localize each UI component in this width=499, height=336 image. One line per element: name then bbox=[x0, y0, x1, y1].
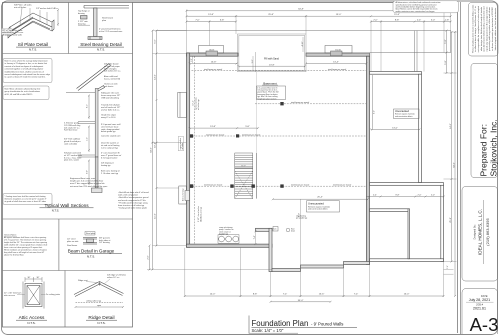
svg-text:14'-0": 14'-0" bbox=[210, 294, 216, 296]
svg-text:7'-0": 7'-0" bbox=[195, 19, 200, 21]
svg-text:cemented together or of self-a: cemented together or of self-adhering po… bbox=[5, 68, 44, 71]
unexcavated strip step wall east bbox=[344, 262, 370, 265]
garage interior north wall bbox=[370, 209, 409, 212]
svg-text:Prepared For:: Prepared For: bbox=[479, 124, 489, 176]
sump pit note bbox=[219, 226, 233, 236]
svg-text:attic access: attic access bbox=[4, 294, 15, 297]
wall section stud wall double line bbox=[95, 89, 98, 158]
svg-text:in effect at time of design. I: in effect at time of design. Ideal Homes… bbox=[474, 6, 477, 51]
drawing frame left column box bbox=[3, 3, 133, 328]
title block designed-by box bbox=[462, 187, 498, 282]
svg-text:6 mil vapor barrier: 6 mil vapor barrier bbox=[101, 156, 118, 159]
svg-text:10'-0": 10'-0" bbox=[241, 166, 246, 168]
fill bay small vdims bbox=[302, 37, 304, 52]
svg-text:8'-1": 8'-1" bbox=[86, 104, 88, 108]
svg-text:and construction debris: and construction debris bbox=[308, 208, 328, 211]
svg-text:furn: furn bbox=[274, 228, 277, 231]
dim row C bbox=[187, 21, 237, 23]
svg-text:in January is 25 degrees or le: in January is 25 degrees or less, an ice… bbox=[5, 62, 48, 65]
porch post lines bbox=[414, 31, 416, 72]
unexcavated strip step wall middle bbox=[301, 265, 344, 268]
east basement wall bbox=[366, 56, 369, 264]
svg-text:• Damp-proof walls below grade: • Damp-proof walls below grade bbox=[118, 207, 148, 210]
fill with sand bay outline bbox=[238, 34, 307, 72]
svg-text:13'-8": 13'-8" bbox=[211, 62, 217, 64]
stair direction dashed cross bbox=[235, 171, 253, 199]
title block disclaimer box bbox=[469, 3, 499, 57]
svg-text:ceiling rafters typ: ceiling rafters typ bbox=[86, 300, 102, 303]
svg-text:proceeding with any portion of: proceeding with any portion of the work … bbox=[488, 6, 491, 51]
west basement wall bbox=[187, 53, 190, 247]
svg-text:Engineered floor truss, max: Engineered floor truss, max bbox=[70, 177, 95, 180]
svg-text:1'-2": 1'-2" bbox=[86, 137, 88, 141]
svg-text:N.T.S.: N.T.S. bbox=[87, 254, 95, 258]
svg-text:at grade of shell also max cov: at grade of shell also max cover at leas… bbox=[5, 200, 47, 203]
svg-text:1'-4": 1'-4" bbox=[447, 265, 449, 269]
svg-text:13'-8": 13'-8" bbox=[210, 126, 216, 128]
svg-text:5'-0": 5'-0" bbox=[155, 39, 157, 44]
svg-text:13'-8": 13'-8" bbox=[269, 64, 275, 66]
svg-text:and mech compacted in 8" lifts: and mech compacted in 8" lifts bbox=[118, 199, 146, 202]
stair wall extension line bbox=[255, 72, 257, 153]
wall section foundation wall bbox=[95, 157, 98, 188]
svg-text:9'-0": 9'-0" bbox=[374, 110, 376, 114]
steel beam top flange lines bbox=[84, 5, 129, 7]
svg-text:4'-10": 4'-10" bbox=[302, 41, 304, 46]
svg-text:64'-0": 64'-0" bbox=[454, 162, 456, 168]
svg-text:13'-0": 13'-0" bbox=[336, 14, 342, 16]
garage north-east top wall bbox=[370, 72, 422, 75]
svg-text:sill sealer at found walls: sill sealer at found walls bbox=[2, 33, 22, 36]
svg-text:16x16: 16x16 bbox=[335, 50, 341, 52]
svg-text:steel beam per manuf: steel beam per manuf bbox=[291, 101, 310, 104]
svg-text:Typical Wall Sections: Typical Wall Sections bbox=[44, 203, 89, 208]
stair treads lower run bbox=[235, 171, 253, 195]
svg-text:3'-0": 3'-0" bbox=[252, 59, 254, 63]
svg-text:13'-6": 13'-6" bbox=[319, 294, 325, 296]
bay east wall bbox=[269, 228, 272, 271]
svg-text:w/ ladder typ: w/ ladder typ bbox=[197, 99, 200, 110]
stair landing line bbox=[235, 168, 253, 170]
column pads mid beam bbox=[190, 134, 240, 137]
svg-text:at the 2 1/2 recessed area: at the 2 1/2 recessed area bbox=[99, 30, 123, 33]
svg-text:fascia, vented 3rd: fascia, vented 3rd bbox=[104, 77, 120, 80]
wall section footing bbox=[92, 188, 103, 193]
wall section note box C bbox=[3, 194, 52, 205]
small 2-0 dim bottom left bbox=[149, 246, 151, 270]
right side extensions bbox=[451, 31, 457, 33]
svg-text:6'-8": 6'-8" bbox=[220, 19, 225, 21]
title block date/sheet box bbox=[462, 289, 498, 335]
porch slab edge line bbox=[157, 31, 452, 72]
pier pad bump-out right bbox=[325, 46, 352, 56]
svg-text:plate ea side: plate ea side bbox=[67, 240, 79, 243]
column line vertical bbox=[193, 56, 195, 244]
garage east wall upper bbox=[419, 74, 422, 182]
svg-text:normal underlayment and extend: normal underlayment and extend from the … bbox=[5, 73, 50, 76]
svg-text:• Backfill w/ non-expansive gr: • Backfill w/ non-expansive gravel bbox=[118, 196, 149, 199]
svg-text:steel beam per manuf: steel beam per manuf bbox=[242, 133, 261, 136]
svg-text:• Provide positive drainage aw: • Provide positive drainage away bbox=[118, 201, 149, 204]
svg-text:Steel Bearing Detail: Steel Bearing Detail bbox=[80, 42, 121, 47]
svg-text:N.T.S.: N.T.S. bbox=[52, 209, 60, 213]
svg-text:25'-4": 25'-4" bbox=[317, 196, 323, 198]
divider under wall sections bbox=[3, 218, 133, 220]
column pads bbox=[190, 102, 284, 188]
sill plate leader lines bbox=[20, 8, 47, 25]
basement note box bbox=[257, 86, 286, 100]
svg-text:anchor bolts 6'-0 o.c.: anchor bolts 6'-0 o.c. bbox=[101, 108, 120, 111]
sill plate left note bbox=[2, 29, 13, 36]
svg-text:walls until compaction: walls until compaction bbox=[118, 194, 138, 197]
svg-text:30": 30" bbox=[37, 277, 40, 279]
svg-text:14'-0": 14'-0" bbox=[450, 123, 452, 129]
attic access top dimension bbox=[25, 277, 42, 282]
svg-text:4'x1'5 chimney: 4'x1'5 chimney bbox=[183, 189, 185, 201]
svg-text:5'-0": 5'-0" bbox=[431, 19, 436, 21]
floor drain symbol bbox=[286, 228, 290, 232]
svg-text:from structure at all sides ty: from structure at all sides typ bbox=[118, 204, 145, 207]
svg-text:below grade typ: below grade typ bbox=[101, 130, 116, 133]
svg-text:- 9' Poured Walls: - 9' Poured Walls bbox=[311, 321, 343, 326]
svg-text:Steel plate: Steel plate bbox=[86, 232, 95, 235]
svg-text:2x ceiling joists: 2x ceiling joists bbox=[46, 293, 60, 296]
top right disclaimer note box bbox=[393, 1, 459, 13]
svg-text:2'-4": 2'-4" bbox=[373, 194, 377, 196]
svg-text:N.T.S.: N.T.S. bbox=[97, 48, 105, 52]
svg-text:not more than 70% total allowe: not more than 70% total allowed for span bbox=[70, 185, 107, 188]
svg-text:14'-6": 14'-6" bbox=[155, 74, 157, 80]
svg-text:Steel beam: Steel beam bbox=[67, 244, 77, 247]
svg-text:modified bitumen sheet, shall: modified bitumen sheet, shall be used in… bbox=[5, 70, 45, 73]
divider wall unexcavated/garage bbox=[370, 183, 444, 186]
svg-text:steel beam per manuf: steel beam per manuf bbox=[206, 133, 225, 136]
garage dimension row bbox=[366, 196, 445, 198]
beam labels mid-left bbox=[206, 133, 261, 136]
wall section right callout texts bbox=[101, 63, 122, 175]
title block prepared-for box bbox=[471, 64, 498, 178]
svg-text:code schedule: code schedule bbox=[64, 143, 78, 145]
svg-text:max 4" dia. nogged holes in ty: max 4" dia. nogged holes in typical do bbox=[70, 182, 105, 185]
svg-text:bearing: bearing bbox=[78, 22, 86, 25]
wall section note box A bbox=[3, 59, 52, 83]
svg-text:2'-0": 2'-0" bbox=[148, 255, 150, 260]
divider between general notes and beam detail cells bbox=[58, 219, 60, 271]
svg-text:2 #4 rebar cont typ: 2 #4 rebar cont typ bbox=[101, 172, 119, 175]
furnace box bbox=[273, 227, 278, 232]
svg-text:1/4" bearing: 1/4" bearing bbox=[99, 242, 110, 244]
svg-text:5'-8": 5'-8" bbox=[445, 60, 447, 65]
dim row A overall bbox=[187, 10, 451, 12]
bay upper wall at kitchen bbox=[256, 228, 273, 231]
attic access side rails bbox=[22, 282, 24, 309]
svg-text:16x16: 16x16 bbox=[209, 50, 215, 52]
svg-text:13'-8": 13'-8" bbox=[208, 14, 214, 16]
ridge rafter right slope bbox=[99, 282, 124, 296]
garage beam top plate callout box bbox=[85, 232, 95, 236]
svg-text:25'-8": 25'-8" bbox=[450, 217, 452, 223]
svg-text:Unexcavated: Unexcavated bbox=[395, 110, 410, 113]
svg-text:These drawings were made to me: These drawings were made to meet buildin… bbox=[471, 5, 474, 53]
svg-text:w/ ladder: w/ ladder bbox=[181, 142, 184, 149]
fill bay interior line bbox=[255, 52, 257, 72]
svg-text:steel beam per manuf: steel beam per manuf bbox=[333, 183, 352, 186]
svg-text:Stojkovich, Inc.: Stojkovich, Inc. bbox=[488, 119, 498, 176]
unexcavated note upper right bbox=[394, 109, 420, 119]
svg-text:per grade typ: per grade typ bbox=[296, 217, 307, 220]
svg-text:report any discrepancies to th: report any discrepancies to the designer… bbox=[485, 6, 488, 52]
svg-text:8'-8": 8'-8" bbox=[253, 294, 258, 296]
svg-text:(219) 863-6395: (219) 863-6395 bbox=[485, 218, 490, 246]
svg-text:5'-8": 5'-8" bbox=[445, 39, 447, 44]
divider between attic access and ridge detail bbox=[64, 271, 66, 328]
svg-text:General Notes:: General Notes: bbox=[4, 234, 17, 237]
svg-text:5'-8": 5'-8" bbox=[245, 126, 250, 128]
svg-text:5'-0": 5'-0" bbox=[431, 194, 435, 196]
stair side wall bbox=[255, 153, 257, 199]
bearing plate block bbox=[81, 16, 88, 20]
stair treads upper run bbox=[235, 155, 253, 166]
svg-text:2x8 rafters 16" o.c.: 2x8 rafters 16" o.c. bbox=[104, 70, 122, 73]
svg-text:15'-4": 15'-4" bbox=[394, 14, 400, 16]
svg-text:Foundation Plan: Foundation Plan bbox=[252, 319, 309, 328]
sill plate right dimension bbox=[57, 10, 59, 26]
ridge ceiling joist dashed line bbox=[76, 302, 124, 304]
svg-text:64'-0": 64'-0" bbox=[151, 147, 153, 153]
beam line mid bbox=[255, 103, 366, 105]
svg-text:Concrete sealed cont: Concrete sealed cont bbox=[101, 135, 121, 138]
svg-text:Beam Detail in Garage: Beam Detail in Garage bbox=[68, 249, 115, 254]
svg-text:7'-4": 7'-4" bbox=[354, 294, 359, 296]
dim row B bbox=[187, 15, 451, 17]
svg-text:24x24x12 pad typ: 24x24x12 pad typ bbox=[200, 207, 203, 222]
svg-text:2'-0": 2'-0" bbox=[191, 58, 193, 62]
svg-text:11'-6": 11'-6" bbox=[155, 213, 157, 219]
svg-text:8'-8": 8'-8" bbox=[396, 194, 400, 196]
wall section note box B bbox=[3, 86, 49, 100]
svg-text:steel beam per manuf: steel beam per manuf bbox=[291, 183, 310, 186]
svg-text:of BL, HL and NE in table R302: of BL, HL and NE in table R302.1. bbox=[5, 93, 34, 96]
svg-text:N.T.S.: N.T.S. bbox=[29, 48, 37, 52]
chimney bump bbox=[179, 186, 190, 204]
svg-text:sub fascia: sub fascia bbox=[104, 86, 114, 88]
wall section right bullet list bbox=[118, 191, 149, 210]
wall section ceiling line bbox=[66, 92, 97, 94]
svg-text:2'-0": 2'-0" bbox=[373, 19, 378, 21]
svg-text:and construction debris: and construction debris bbox=[395, 115, 413, 118]
svg-text:7'-4": 7'-4" bbox=[283, 294, 288, 296]
svg-text:rafters 16" o.c.: rafters 16" o.c. bbox=[107, 276, 120, 279]
svg-text:19'-4": 19'-4" bbox=[155, 142, 157, 148]
svg-text:7'-4": 7'-4" bbox=[254, 235, 256, 239]
svg-text:consists of at least two layer: consists of at least two layers of under… bbox=[5, 65, 44, 68]
svg-text:17'-4": 17'-4" bbox=[192, 100, 194, 106]
svg-text:Note: Minor alterations allowe: Note: Minor alterations allowed during f… bbox=[5, 88, 41, 91]
svg-text:Scale: 1/4" = 1'0": Scale: 1/4" = 1'0" bbox=[252, 328, 284, 333]
mid-left extension bbox=[152, 142, 187, 144]
svg-text:on these documents per standar: on these documents per standards of ICC/… bbox=[491, 7, 494, 51]
svg-text:OSB wall sheathing: OSB wall sheathing bbox=[101, 96, 119, 99]
frame right border of plan area bbox=[457, 3, 459, 334]
garage east wall lower bbox=[441, 185, 444, 261]
beam labels bbox=[204, 68, 352, 187]
bay dim bbox=[255, 231, 257, 244]
svg-text:plate min, sealer: plate min, sealer bbox=[64, 159, 79, 162]
pier pad bump-out left bbox=[199, 46, 224, 56]
ridge dimension line bbox=[75, 306, 125, 308]
svg-text:latest adopted edition and loc: latest adopted edition and local amendme… bbox=[494, 8, 497, 51]
divider under top detail row bbox=[3, 53, 133, 55]
svg-text:30": 30" bbox=[28, 277, 31, 279]
svg-text:1'-8": 1'-8" bbox=[445, 19, 450, 21]
front wall left segment bbox=[187, 53, 239, 56]
svg-text:drain: drain bbox=[291, 231, 295, 233]
svg-text:not responsible for compliance: not responsible for compliance w/ codes … bbox=[477, 5, 480, 52]
svg-text:13'-0": 13'-0" bbox=[392, 127, 398, 129]
garage beam flange plates bbox=[83, 237, 97, 239]
svg-text:A-3: A-3 bbox=[470, 314, 499, 335]
title block left border bbox=[460, 2, 462, 334]
svg-text:after design date. Builder sha: after design date. Builder shall verify … bbox=[480, 7, 483, 51]
wall section floor lines bbox=[78, 121, 95, 123]
svg-text:25'-8": 25'-8" bbox=[268, 14, 274, 16]
svg-text:and/or omissions once construc: and/or omissions once construction has b… bbox=[396, 10, 435, 13]
egress note boxed rotated bbox=[178, 137, 183, 151]
svg-text:IDEAL HOMES, L.L.C.: IDEAL HOMES, L.L.C. bbox=[478, 209, 483, 255]
attic access X brace bbox=[27, 286, 40, 305]
svg-text:2'-4": 2'-4" bbox=[417, 19, 422, 21]
svg-text:span: span bbox=[97, 305, 101, 307]
svg-text:13'-0": 13'-0" bbox=[404, 294, 410, 296]
svg-text:R-19 batt insul: R-19 batt insul bbox=[64, 129, 78, 132]
svg-text:steel beam per manuf: steel beam per manuf bbox=[328, 68, 347, 71]
svg-text:Designed By:: Designed By: bbox=[474, 224, 477, 239]
svg-text:• Backfill not done w/in 4' of: • Backfill not done w/in 4' of found bbox=[118, 191, 149, 194]
svg-text:N.T.S.: N.T.S. bbox=[97, 321, 105, 325]
svg-text:* Footing sizes here shall be: * Footing sizes here shall be nominal wi… bbox=[5, 195, 46, 198]
svg-text:1/2"anchor bolt 6'-0 o.c.: 1/2"anchor bolt 6'-0 o.c. bbox=[36, 7, 59, 10]
svg-text:13'-4": 13'-4" bbox=[333, 62, 339, 64]
wall section eave / soffit bbox=[97, 86, 105, 92]
ridge board at peak bbox=[99, 282, 101, 286]
attic access frame bbox=[25, 284, 42, 307]
divider under beam detail row bbox=[3, 270, 133, 272]
wall section left callout texts bbox=[64, 122, 82, 162]
svg-text:2021.61: 2021.61 bbox=[473, 306, 486, 310]
svg-text:July 28, 2021: July 28, 2021 bbox=[469, 298, 490, 302]
svg-text:35'-4": 35'-4" bbox=[298, 300, 304, 302]
svg-text:footing typ: footing typ bbox=[101, 164, 111, 167]
unexcavated strip step wall west bbox=[272, 269, 301, 272]
svg-text:lengths per 4'-0 centered of t: lengths per 4'-0 centered of this floor bbox=[70, 180, 103, 183]
svg-text:and dimensions before starting: and dimensions before starting construct… bbox=[483, 5, 486, 51]
svg-text:thickness req plates as concre: thickness req plates as concrete psf 2" … bbox=[5, 197, 47, 200]
wall section dimension arrows column bbox=[88, 95, 90, 186]
svg-text:64'-8": 64'-8" bbox=[298, 9, 304, 11]
beam line front bbox=[192, 70, 367, 72]
frame top border of plan area bbox=[133, 2, 458, 4]
svg-text:steel beam per manuf: steel beam per manuf bbox=[204, 183, 223, 186]
egress window bump bbox=[178, 92, 187, 117]
divider between sil plate and steel bearing cells bbox=[68, 3, 70, 54]
svg-text:Note: In areas where the aver: Note: In areas where the average daily t… bbox=[5, 60, 48, 63]
beam line mid-left bbox=[190, 135, 367, 137]
svg-text:away 6" in 10'-0: away 6" in 10'-0 bbox=[101, 117, 116, 119]
svg-text:group classification for such: group classification for such classifica… bbox=[5, 90, 41, 93]
foundation wall double line bbox=[94, 8, 98, 37]
svg-text:Basement: Basement bbox=[263, 81, 277, 85]
unexcavated note lower bbox=[307, 201, 340, 212]
bottom extensions bbox=[184, 248, 186, 297]
svg-text:daylight typ: daylight typ bbox=[219, 233, 228, 236]
basement bottom wall bbox=[187, 244, 273, 247]
wall section roof rafter diagonal bbox=[66, 64, 111, 193]
svg-text:to a point at least 24" inside: to a point at least 24" inside the exter… bbox=[5, 76, 46, 79]
front wall right segment bbox=[306, 53, 369, 56]
svg-text:run to sump pit typ: run to sump pit typ bbox=[101, 146, 119, 149]
svg-text:8'-8": 8'-8" bbox=[395, 19, 400, 21]
footing at wall base bbox=[88, 37, 102, 40]
svg-text:height per plan section: height per plan section bbox=[257, 97, 276, 100]
interior dim line y128 bbox=[189, 127, 259, 129]
svg-text:9'-0": 9'-0" bbox=[86, 170, 88, 174]
svg-text:above the finished floor.: above the finished floor. bbox=[4, 254, 24, 257]
svg-text:steel beam per manuf: steel beam per manuf bbox=[204, 68, 223, 71]
garage south wall bbox=[370, 259, 444, 262]
left side extensions bbox=[153, 30, 187, 32]
svg-text:9": 9" bbox=[54, 8, 56, 10]
wall section left lower text (engineered trusses) bbox=[70, 177, 107, 188]
svg-text:Sil Plate Detail: Sil Plate Detail bbox=[18, 42, 48, 47]
svg-text:Unexcavated: Unexcavated bbox=[308, 201, 324, 205]
ridge rafter left slope bbox=[74, 282, 101, 297]
garage interior divider wall bbox=[408, 209, 410, 259]
sill plate iso corner drawing bbox=[10, 13, 52, 32]
svg-text:bearing: bearing bbox=[78, 13, 85, 15]
svg-text:Fill with Sand: Fill with Sand bbox=[264, 58, 279, 61]
svg-text:N.T.S.: N.T.S. bbox=[27, 321, 35, 325]
svg-text:min all holes: min all holes bbox=[14, 7, 27, 9]
svg-text:2'-0": 2'-0" bbox=[418, 194, 422, 196]
beam line rear bbox=[190, 185, 367, 187]
